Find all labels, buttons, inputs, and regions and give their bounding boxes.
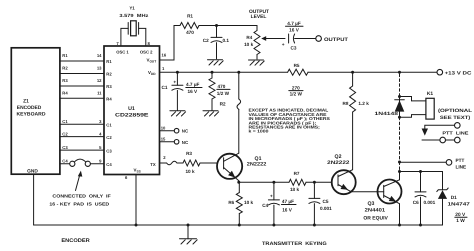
resistor R8 1.2k [343,71,370,170]
svg-text:16 - KEY PAD IS USED: 16 - KEY PAD IS USED [49,202,109,207]
svg-text:Q3: Q3 [368,201,375,207]
svg-text:R1: R1 [187,14,193,19]
crystal Y1 3.579 MHz with pins 7 and 8 [116,6,150,46]
svg-text:SEE TEXT): SEE TEXT) [440,115,471,121]
resistor R7 18k [289,171,306,192]
svg-text:C2: C2 [203,38,209,43]
resistor R2 470 1/2W [209,71,230,111]
svg-text:C2: C2 [106,135,112,140]
svg-text:1N4148: 1N4148 [375,111,399,116]
zener diode D1 1N4747 20V 1W [437,172,470,226]
capacitor C4 47uF 16V [262,182,296,225]
wire VDD to Q1 collector with break squiggle [237,71,241,153]
potentiometer R4 10k with wiper [244,26,285,60]
svg-text:R2: R2 [62,66,68,71]
ground for C1 [170,111,186,116]
label OUTPUT LEVEL [249,9,269,20]
svg-text:C5: C5 [323,199,329,204]
svg-text:OSC 1: OSC 1 [116,49,129,54]
svg-text:K1: K1 [427,91,434,97]
svg-text:TRANSMITTER KEYING: TRANSMITTER KEYING [262,241,327,247]
svg-text:16 V: 16 V [188,89,199,94]
svg-text:R5: R5 [294,63,300,68]
svg-text:10 k: 10 k [185,169,195,174]
svg-text:12: 12 [97,78,102,83]
svg-text:10 k: 10 k [244,42,254,47]
svg-text:R3: R3 [106,84,112,89]
svg-text:R4: R4 [62,90,68,95]
svg-text:R4: R4 [106,97,112,102]
dashed wire +13V to K1 and PTT node [398,71,401,172]
svg-text:6: 6 [125,175,128,180]
svg-text:R7: R7 [294,171,300,176]
svg-text:OUTPUT: OUTPUT [324,37,348,43]
svg-text:R4: R4 [246,35,252,40]
svg-text:OSC 2: OSC 2 [140,49,153,54]
svg-text:3: 3 [99,119,102,124]
svg-text:C4: C4 [62,159,68,164]
svg-text:Z1: Z1 [23,98,29,104]
keyboard Z1 [11,48,60,175]
svg-text:470: 470 [186,30,194,35]
svg-text:9: 9 [99,159,102,164]
svg-text:R1: R1 [106,59,112,64]
resistor R5 270 1/2W [288,63,308,96]
svg-text:k = 1000: k = 1000 [249,129,270,134]
svg-text:13: 13 [97,66,102,71]
svg-text:C1: C1 [106,122,112,127]
svg-text:47 µF: 47 µF [282,199,294,204]
capacitor C5 0.001 [309,182,332,225]
svg-text:R2: R2 [106,72,112,77]
svg-text:16 V: 16 V [289,27,300,32]
wire R3 to Q1 base [200,162,217,164]
capacitor C1 4.7uF 16V [162,71,203,111]
wire C4 row with switch and pin 9 [60,159,104,167]
svg-text:ENCODED: ENCODED [17,105,42,111]
note CONNECTED ONLY IF 16-KEY PAD IS USED with arrow [49,171,111,207]
svg-text:14: 14 [97,53,102,58]
svg-text:VOUT: VOUT [147,57,157,63]
svg-text:18 k: 18 k [290,187,300,192]
IC U1 CD22859E [104,46,160,175]
svg-text:+: + [270,195,273,200]
svg-text:4.7 µF: 4.7 µF [287,21,301,26]
svg-text:U1: U1 [128,106,135,112]
svg-text:GND: GND [27,168,38,174]
ground symbol on rail [180,225,198,244]
svg-text:11: 11 [97,90,102,95]
wire Q1 emitter node to Q2 base [237,181,331,184]
svg-text:VSS: VSS [134,167,141,173]
wire R1 to potentiometer R4 top [199,25,257,27]
transistor Q1 2N2222 [217,153,267,182]
wires Z1 rows R1-C3 with pin numbers [60,53,104,150]
ground rail [34,224,443,227]
wire Q3 collector node to C6 and D1 [398,170,443,173]
svg-text:15: 15 [161,137,166,142]
svg-text:LINE: LINE [456,165,467,170]
svg-text:OUTPUT: OUTPUT [249,9,269,15]
svg-text:0.1: 0.1 [223,38,230,43]
svg-text:R8: R8 [343,101,349,106]
svg-text:C1: C1 [62,119,68,124]
svg-text:C4: C4 [262,203,268,208]
svg-text:C2: C2 [62,131,68,136]
svg-text:1.2 k: 1.2 k [358,101,369,106]
svg-text:1/2 W: 1/2 W [290,91,303,96]
svg-text:2N2222: 2N2222 [327,160,349,166]
svg-text:2N2222: 2N2222 [247,162,267,168]
wire Z1 GND down to ground rail [33,175,35,226]
wire Q2 emitter to Q3 base [351,191,383,193]
svg-text:KEYBOARD: KEYBOARD [17,112,46,118]
svg-text:NC: NC [182,129,189,134]
svg-text:2: 2 [163,155,166,160]
svg-text:CD22859E: CD22859E [115,112,149,118]
terminal OUTPUT [316,36,348,43]
svg-text:10: 10 [161,125,166,130]
transistor Q3 2N4401 [363,172,401,226]
resistor R3 10k [183,151,200,174]
svg-text:C3: C3 [291,46,297,51]
svg-text:C1: C1 [162,85,168,90]
relay coil K1 [400,91,473,121]
wire U1 VSS pin 6 to rail [125,175,136,226]
svg-text:5: 5 [99,145,102,150]
svg-text:VDD: VDD [148,70,156,76]
svg-text:CONNECTED ONLY IF: CONNECTED ONLY IF [52,194,111,199]
wire VDD rail pin 1 to R5 [160,66,288,72]
svg-text:10 k: 10 k [244,200,254,205]
svg-text:0.001: 0.001 [320,206,332,211]
svg-text:C3: C3 [106,148,112,153]
ground for R2 [203,111,219,116]
svg-text:PTT: PTT [456,158,465,163]
terminal +13 V DC [437,69,472,76]
resistor R6 10k [228,182,253,225]
resistor R1 470 [180,14,199,36]
wire pin 2 TX with break squiggle [160,155,184,165]
svg-text:2N4401: 2N4401 [365,207,386,213]
svg-text:R3: R3 [186,151,192,156]
svg-text:R3: R3 [62,78,68,83]
svg-text:C3: C3 [62,145,68,150]
pin 15 NC [160,137,189,145]
transistor Q2 2N2222 [327,154,356,194]
svg-text:3.579 MHz: 3.579 MHz [119,13,149,18]
diode 1N4148 [375,95,405,119]
svg-text:1N4747: 1N4747 [448,201,471,207]
capacitor C6 0.001 [413,172,436,226]
svg-text:OR EQUIV: OR EQUIV [363,215,388,221]
ground for C2 [208,60,224,65]
wire R5 to +13V terminal [308,71,437,73]
svg-text:R2: R2 [220,101,226,106]
svg-text:270: 270 [292,85,300,90]
svg-text:ENCODER: ENCODER [61,238,90,244]
note units text block [249,108,331,134]
svg-text:1/2 W: 1/2 W [217,91,230,96]
relay contacts PTT LINE [422,123,469,143]
capacitor C2 0.1 [203,24,230,59]
svg-text:R6: R6 [228,200,234,205]
ground for R4 [249,60,265,65]
svg-text:TX: TX [150,162,156,167]
svg-text:(OPTIONAL: (OPTIONAL [438,108,472,114]
svg-text:Y1: Y1 [129,6,135,11]
svg-text:1: 1 [162,66,165,71]
svg-text:4.7 µF: 4.7 µF [186,82,200,87]
svg-text:D1: D1 [451,195,457,201]
wire pin 16 VOUT up to R1 [160,26,181,61]
wire PTT LINE terminal [398,158,466,170]
svg-text:PTT LINE: PTT LINE [442,131,468,136]
svg-text:C4: C4 [106,162,112,167]
svg-text:+13 V DC: +13 V DC [445,70,472,76]
svg-text:C6: C6 [413,200,419,205]
svg-text:LEVEL: LEVEL [251,14,267,20]
svg-text:16: 16 [162,53,167,58]
svg-text:R1: R1 [62,53,68,58]
svg-text:4: 4 [99,131,102,136]
svg-text:470: 470 [218,84,226,89]
svg-text:16 V: 16 V [282,208,293,213]
svg-text:+: + [173,80,176,85]
svg-text:0.001: 0.001 [424,200,436,205]
pin 10 NC [160,125,189,133]
svg-text:1 W: 1 W [456,218,465,224]
svg-text:NC: NC [182,140,189,145]
svg-text:+: + [282,43,285,48]
capacitor C3 4.7uF 16V [282,21,316,51]
